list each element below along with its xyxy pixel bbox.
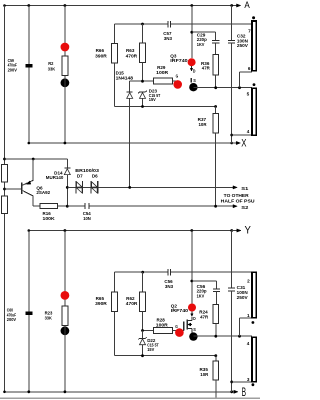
svg-text:15V: 15V (147, 347, 154, 352)
svg-text:200V: 200V (8, 67, 17, 72)
wire C31 column lower (231, 291, 233, 392)
junction dot rail/C59 (27, 4, 30, 7)
junction dot left rail base (3, 188, 6, 191)
test point black dot on R2 bottom (61, 78, 70, 87)
junction dot source/winding T1c return (238, 335, 241, 338)
junction dot B/R23 (64, 390, 67, 393)
junction dot R62 top (141, 271, 144, 274)
junction dot rail/C32 (230, 4, 233, 7)
wire Q3 drain from rail (191, 6, 193, 59)
svg-text:470R: 470R (126, 53, 138, 58)
svg-text:15V: 15V (149, 97, 156, 102)
wire drive bus y24 right segment (171, 23, 252, 25)
wire D14 column lower (66, 175, 68, 207)
capacitor C56 tap cap (213, 288, 220, 290)
drain red dot D bottom (188, 304, 196, 312)
svg-text:D7: D7 (77, 173, 83, 178)
svg-text:HALF OF PSU: HALF OF PSU (221, 198, 255, 203)
wire R37 top lead (215, 107, 217, 114)
wire drive bus y24 left segment (115, 23, 168, 25)
wire Q2 drain from Y (191, 231, 193, 304)
svg-text:R2: R2 (48, 61, 54, 66)
capacitor C31 (228, 287, 235, 289)
arrowhead to S2 (233, 205, 237, 208)
wire C29 to R36 (215, 43, 217, 55)
junction dot zener bus/D23 (141, 105, 144, 108)
wire X bus y143 (29, 142, 232, 144)
junction dot D14/S2 bus (66, 205, 69, 208)
junction dot Y/R23 (64, 229, 67, 232)
svg-text:R63: R63 (126, 48, 135, 53)
wire R2 branch top (64, 6, 66, 57)
test point red dot on R2 top (61, 43, 70, 52)
wire R35 top lead (215, 356, 217, 361)
svg-text:10R: 10R (200, 372, 209, 377)
svg-text:33K: 33K (48, 67, 56, 72)
wire R63 bottom lead (142, 63, 144, 81)
wire source bus y336.2 (193, 335, 252, 337)
wire source bus y87.7 (193, 87, 252, 89)
svg-text:D6: D6 (92, 173, 98, 178)
transformer winding T1d (252, 337, 256, 382)
resistor R65 (112, 292, 118, 311)
junction dot B/C60 (27, 390, 30, 393)
junction dot zener bus/R35 (214, 354, 217, 357)
svg-text:100R: 100R (156, 70, 169, 75)
wire gate bus y81 (130, 80, 154, 82)
resistor R16 (40, 204, 58, 209)
svg-text:1KV: 1KV (197, 42, 205, 47)
zener D22 (142, 331, 144, 339)
diode D14 (64, 167, 70, 169)
svg-text:47R: 47R (202, 65, 211, 70)
wire drive bus y272 left segment (115, 271, 168, 273)
wire R29 to gate (173, 80, 178, 82)
svg-text:Y: Y (245, 225, 252, 237)
wire R62 top lead (142, 272, 144, 292)
resistor R36 (213, 55, 219, 75)
wire C60 branch (28, 231, 30, 392)
wire D15 branch (129, 81, 131, 92)
wire R35 bottom lead (215, 380, 217, 399)
svg-text:4: 4 (247, 341, 250, 346)
resistor R2 (62, 56, 68, 76)
wire D22 to zener bus (142, 345, 144, 356)
arrowhead to Y (232, 230, 237, 232)
svg-text:390R: 390R (95, 301, 107, 306)
wire R23 branch bottom (64, 325, 66, 392)
wire zener bus y355.7 (115, 355, 216, 357)
junction dot B/left rail corner (3, 391, 6, 394)
wire R36 bottom lead (215, 75, 217, 88)
wire D23 to zener bus (142, 98, 144, 106)
wire C32 column lower (231, 43, 233, 143)
source black dot S bottom (189, 332, 197, 340)
svg-text:4: 4 (247, 129, 250, 134)
wire zener bus y106 (115, 106, 216, 108)
junction dot winding T1b bottom link (230, 134, 233, 137)
svg-text:1KV: 1KV (197, 294, 205, 299)
arrowhead to B (234, 390, 238, 393)
wire D15 branch lower (129, 98, 131, 187)
wire C56 to R24 (216, 292, 218, 305)
test point red dot on R23 top (61, 291, 70, 300)
gate red dot G bottom (175, 328, 184, 337)
svg-text:7: 7 (248, 28, 251, 33)
phasing dot T1c (252, 321, 255, 324)
junction dot zener bus/D22 (141, 354, 144, 357)
diac D7 (75, 181, 77, 193)
svg-text:47R: 47R (200, 314, 209, 319)
wire left rail (4, 6, 6, 392)
junction dot B/C31 column (230, 390, 233, 393)
wire R2 branch bottom (64, 76, 66, 144)
junction dot rail-left corner (3, 4, 6, 7)
phasing dot T1a (252, 16, 255, 19)
junction dot gate/R63 (141, 80, 144, 83)
svg-text:IRF740: IRF740 (170, 58, 188, 63)
wire R23 branch top (64, 231, 66, 307)
crop edge gray line (0, 397, 260, 399)
wire B rail (5, 391, 236, 393)
svg-text:10N: 10N (83, 216, 91, 221)
wire C32 column upper (231, 6, 233, 41)
svg-text:2SA92: 2SA92 (36, 190, 50, 195)
junction dot source/R24 (214, 335, 217, 338)
svg-text:S: S (193, 327, 196, 332)
wire C56 tap (192, 280, 217, 282)
svg-text:1: 1 (247, 313, 250, 318)
mosfet Q2 symbol (183, 322, 185, 331)
svg-text:3N3: 3N3 (165, 284, 174, 289)
phasing dot T1b (253, 83, 256, 86)
wire S2 bus left (67, 205, 84, 207)
gate red dot G (173, 80, 182, 89)
wire Q6 base (5, 188, 22, 190)
junction dot X/R2 (64, 142, 67, 145)
junction dot drain/C29 tap (190, 31, 193, 34)
resistor R62 (140, 292, 146, 311)
junction dot S1/D15 column (128, 186, 131, 189)
junction dot Q6 emitter column (32, 158, 35, 161)
capacitor C60 (electrolytic bar) (25, 312, 32, 315)
junction dot Y/Q2 drain (190, 229, 193, 232)
svg-text:S: S (193, 78, 196, 83)
transformer winding T1c (252, 272, 256, 318)
svg-text:3N3: 3N3 (164, 36, 173, 41)
svg-text:250V: 250V (237, 295, 248, 300)
zener D23 (140, 91, 146, 93)
Q3 drain stub with arrow (191, 66, 193, 68)
capacitor C59 (electrolytic bar) (25, 64, 32, 67)
junction dot S2/R37 column (214, 205, 217, 208)
junction dot left rail feed (3, 158, 6, 161)
junction dot Y/C60 corner (28, 229, 31, 232)
wire feed y159 (5, 158, 68, 160)
junction dot R63 top (141, 23, 144, 26)
wire winding T1a bottom link (240, 71, 252, 73)
wire gate bus y330.5 (143, 330, 154, 332)
resistor R23 (62, 306, 68, 325)
junction dot Y/C31 column (230, 229, 233, 232)
junction dot winding T1d bottom link (230, 381, 233, 384)
svg-text:IRF740: IRF740 (171, 308, 189, 313)
junction dot source/winding T1a return (238, 86, 241, 89)
resistor R63 (140, 43, 146, 63)
junction dot D14/S1 bus (66, 186, 69, 189)
arrowhead to S1 (233, 186, 237, 189)
wire R63 top lead (142, 24, 144, 43)
svg-text:470R: 470R (126, 301, 138, 306)
junction dot zener bus/R37 (214, 105, 217, 108)
junction dot rail/Q3 drain (190, 4, 193, 7)
wire R16 to junction (58, 205, 68, 207)
svg-text:MUR140: MUR140 (46, 175, 64, 180)
wire R62 bottom lead (142, 311, 144, 330)
wire C31 column upper (231, 231, 233, 289)
resistor R35 (213, 361, 219, 380)
test point black dot on R23 bottom (61, 326, 70, 335)
svg-text:3: 3 (247, 377, 250, 382)
wire S1 bus y187 (67, 186, 233, 188)
wire winding T1b bottom link (232, 134, 252, 136)
resistor unlabeled upper on left rail (2, 165, 8, 183)
wire drive bus y272 right segment (171, 271, 252, 273)
wire C59 branch (28, 6, 30, 144)
wire R65 bottom lead (114, 311, 116, 355)
capacitor C56 coupling (167, 269, 169, 276)
wire C29 tap (192, 31, 216, 33)
wire R37 bottom lead down to S2 (215, 133, 217, 206)
svg-text:G: G (176, 74, 179, 79)
capacitor C57 (167, 21, 169, 28)
wire top rail A (node A) (5, 5, 237, 7)
resistor R28 (154, 328, 173, 334)
arrowhead to A (237, 4, 241, 7)
wire R65 top lead (114, 272, 116, 292)
transistor Q6 2SA92 (21, 182, 23, 194)
arrowhead to X (232, 142, 237, 144)
svg-text:2: 2 (247, 279, 250, 284)
wire winding T1c bottom link (240, 317, 252, 319)
capacitor C54 (84, 203, 86, 209)
svg-text:10R: 10R (199, 122, 208, 127)
phasing dot T1d (252, 383, 255, 386)
diode D15 (127, 91, 133, 93)
wire R24 bottom lead (215, 324, 217, 337)
resistor unlabeled lower on left rail (2, 196, 8, 214)
transformer winding T1b (252, 88, 256, 135)
wire R66 top lead (114, 24, 116, 44)
transformer winding T1a (252, 21, 256, 71)
capacitor C29 (212, 39, 219, 41)
svg-text:100K: 100K (43, 216, 56, 221)
junction dot rail/R2 (64, 4, 67, 7)
svg-text:S1: S1 (241, 186, 249, 191)
junction dot X/C32 column (230, 142, 233, 145)
svg-text:200V: 200V (7, 317, 16, 322)
diac D6 (90, 181, 92, 193)
svg-text:1N4148: 1N4148 (116, 75, 134, 80)
svg-text:S2: S2 (241, 205, 249, 210)
resistor R66 (112, 44, 118, 64)
Q3 channel bar fragment (190, 78, 192, 82)
resistor R37 (213, 114, 219, 134)
wire Y bus y230.5 (29, 230, 232, 232)
svg-text:R66: R66 (96, 48, 105, 53)
junction dot X/C59 corner (28, 142, 31, 145)
junction dot drain/C56 tap (190, 280, 193, 283)
wire R66 bottom lead (114, 63, 116, 107)
Q2 drain stub with arrow (191, 311, 193, 313)
svg-text:G: G (175, 324, 178, 329)
svg-text:390R: 390R (95, 53, 107, 58)
svg-text:250V: 250V (237, 43, 248, 48)
source black dot S (189, 83, 197, 91)
resistor R24 (213, 305, 219, 324)
junction dot source/R36 (214, 86, 217, 89)
junction dot gate/R62 (141, 329, 144, 332)
capacitor C32 (228, 39, 235, 41)
wire R28 to gate (173, 330, 184, 332)
svg-text:33K: 33K (45, 316, 53, 321)
resistor R29 (154, 78, 173, 84)
svg-text:100R: 100R (156, 323, 169, 328)
wire winding T1d bottom link (232, 381, 252, 383)
svg-text:6: 6 (248, 66, 251, 71)
svg-text:A: A (244, 0, 250, 11)
svg-text:B: B (242, 387, 247, 399)
wire D14 column top (66, 159, 68, 168)
drain red dot D (188, 58, 196, 66)
svg-text:X: X (241, 137, 247, 149)
wire S2 bus right (89, 205, 233, 207)
svg-text:5: 5 (247, 92, 250, 97)
